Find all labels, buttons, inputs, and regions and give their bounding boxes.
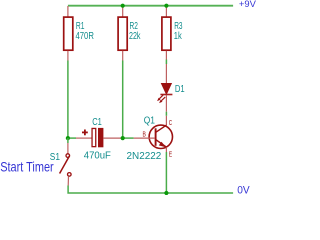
svg-text:+9V: +9V [239,0,257,9]
wire R2 bottom to base junction [122,61,124,139]
resistor R3 [162,6,171,60]
wire C1 junction down to switch [67,138,69,143]
resistor R2 [118,6,127,61]
junction dot C1 right [121,136,125,140]
svg-text:E: E [169,149,172,158]
svg-text:1k: 1k [174,31,183,42]
svg-text:B: B [143,129,146,138]
wire top +9V rail [68,5,233,7]
svg-text:0V: 0V [237,185,250,195]
capacitor C1 [68,128,121,147]
svg-text:470R: 470R [76,31,94,42]
wire D1 to Q1 collector [165,112,167,116]
junction dot rail R2 [121,4,125,8]
junction dot bottom rail [164,191,168,195]
wire R1 bottom to C1 junction [67,61,69,139]
svg-text:D1: D1 [175,84,185,95]
junction dot C1 left [66,136,70,140]
junction dot rail R3 [164,4,168,8]
svg-text:Q1: Q1 [144,116,156,127]
svg-text:C1: C1 [92,117,102,128]
wire bottom 0V rail [68,186,233,194]
LED D1 [157,64,172,112]
resistor R1 [64,6,73,61]
svg-text:C: C [169,118,173,127]
wire Q1 emitter to bottom rail [165,152,167,193]
svg-text:2N2222: 2N2222 [127,151,162,162]
switch S1 [60,143,72,186]
svg-text:470uF: 470uF [84,151,111,162]
wire R3 bottom to D1 [165,60,167,65]
transistor Q1 [134,116,173,152]
svg-text:Start Timer: Start Timer [0,160,54,175]
svg-text:22k: 22k [129,31,141,42]
wire base junction to Q1 base [123,137,134,139]
